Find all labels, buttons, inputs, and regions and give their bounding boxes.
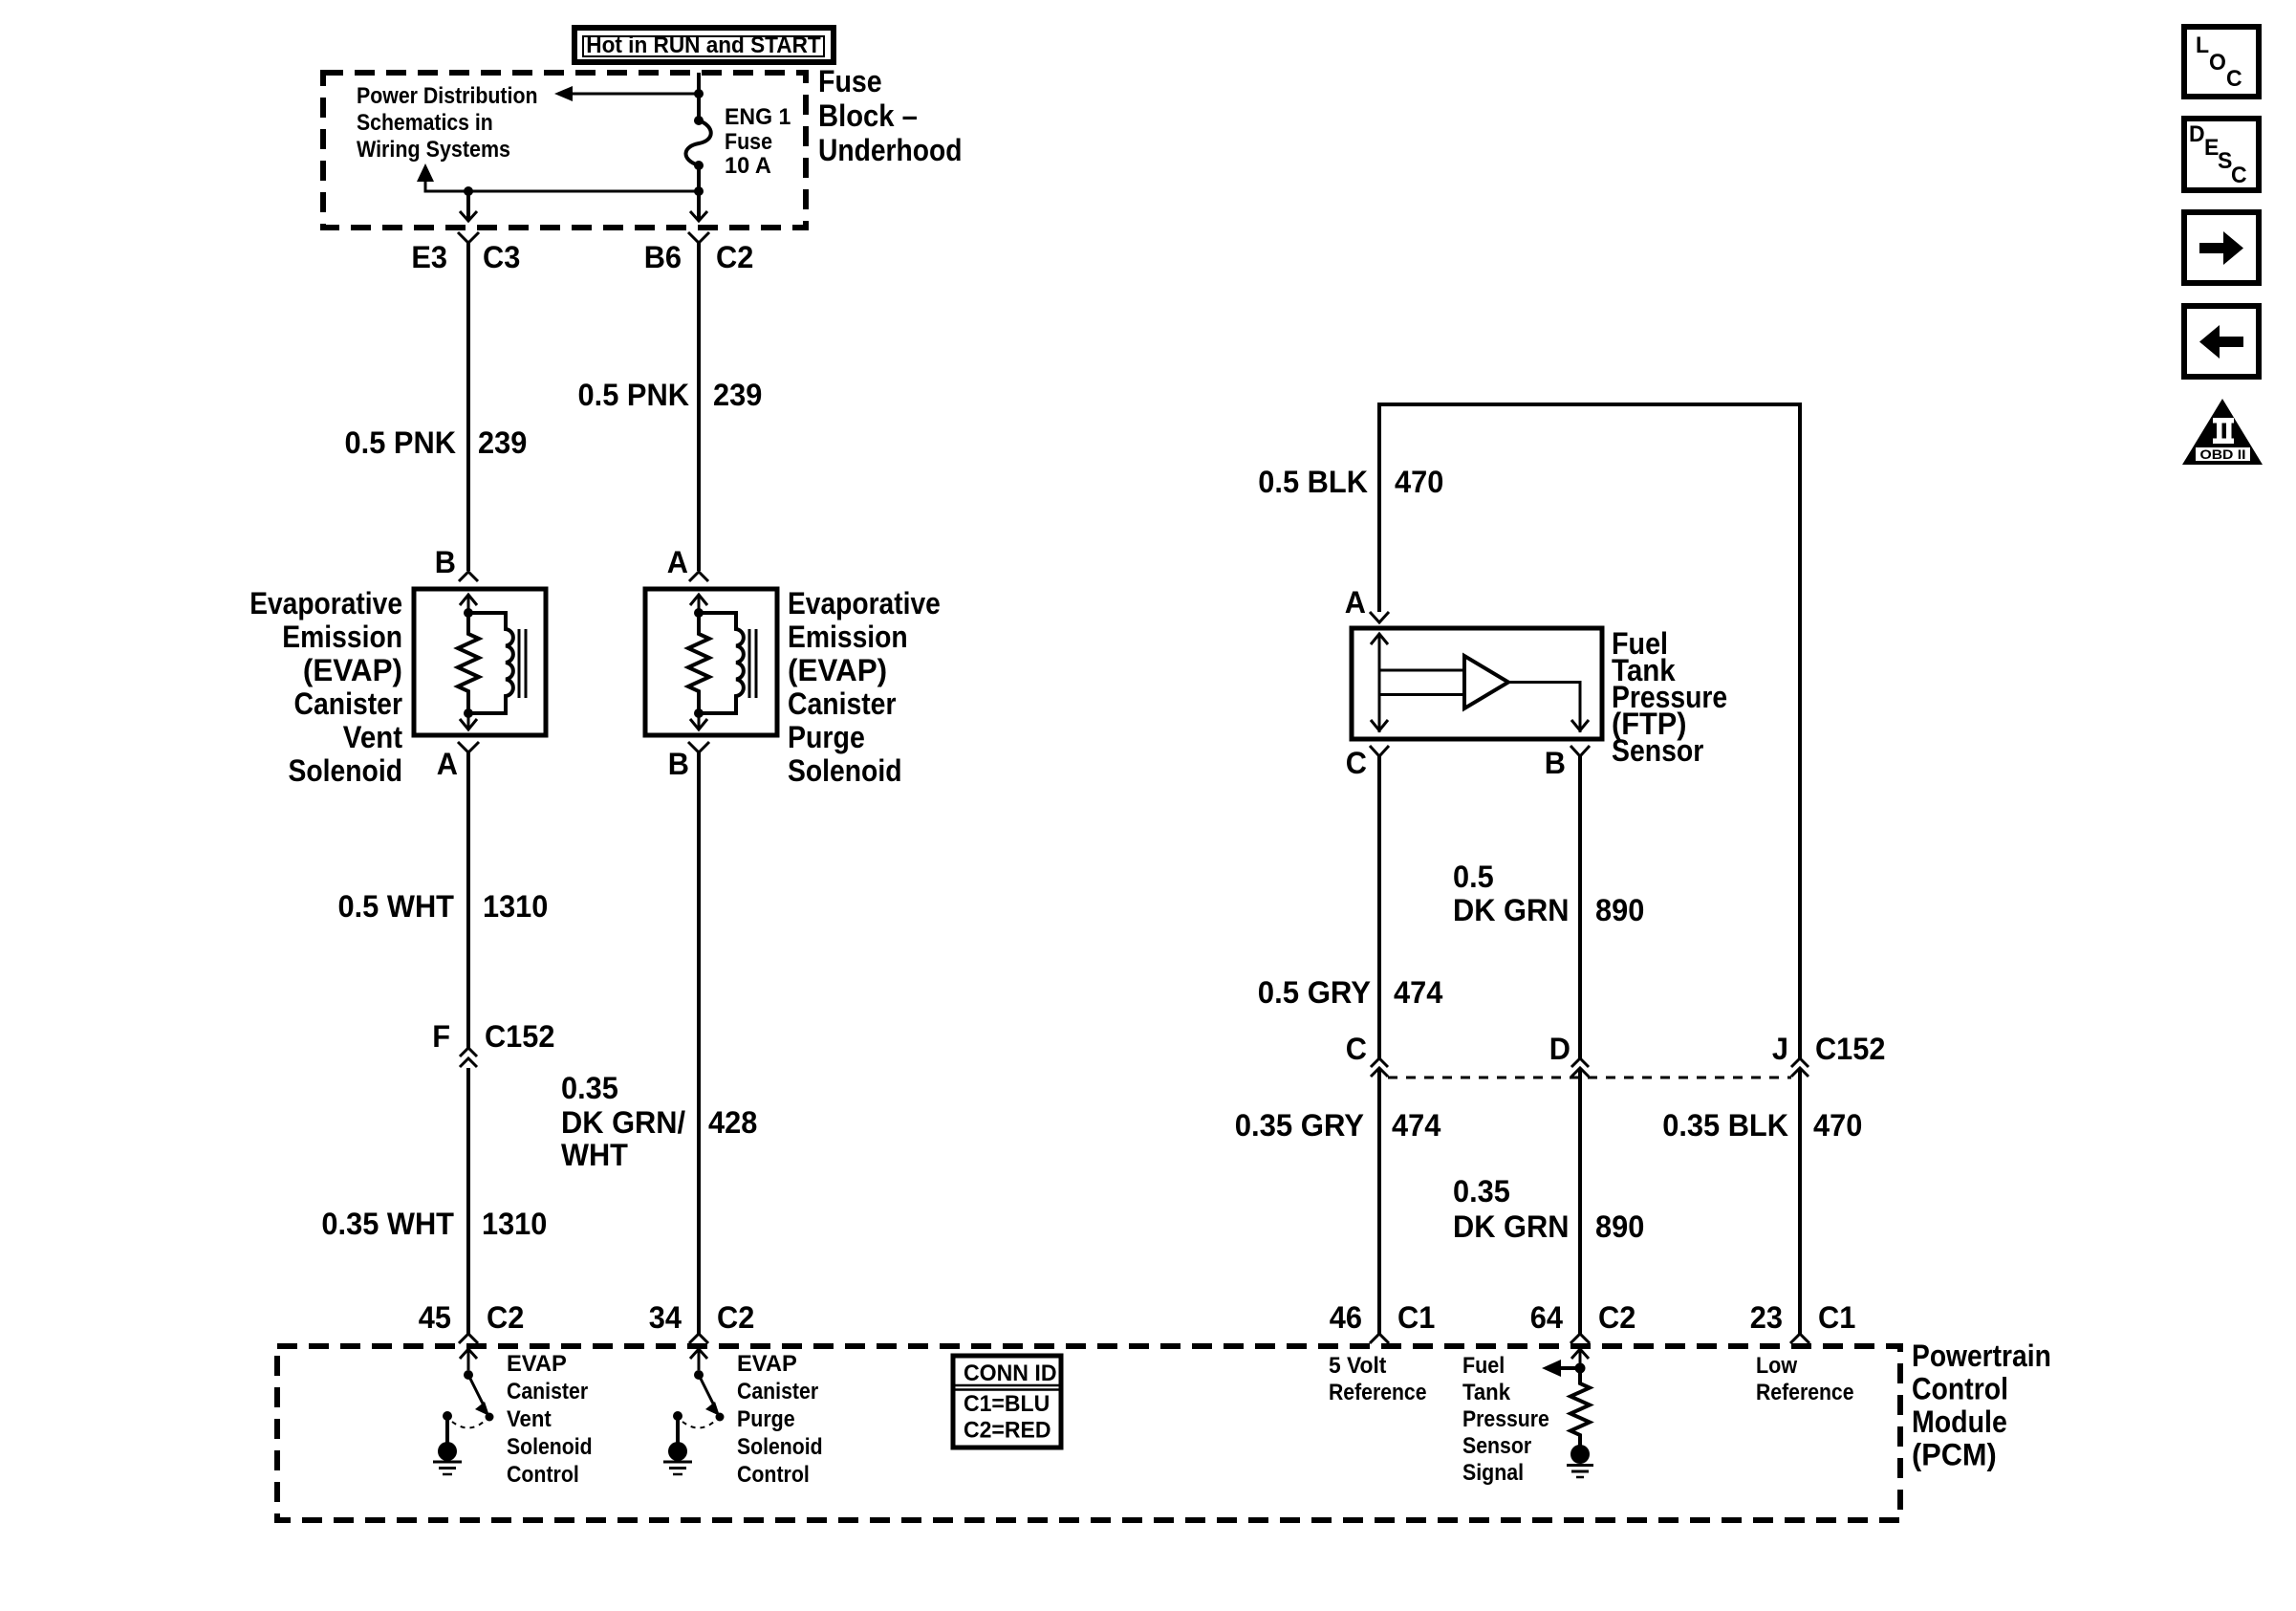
- svg-text:C3: C3: [483, 240, 520, 274]
- connector pin A of purge solenoid: [689, 572, 708, 581]
- svg-text:O: O: [2209, 50, 2226, 76]
- svg-text:C2: C2: [716, 240, 753, 274]
- svg-text:Fuel: Fuel: [1462, 1353, 1505, 1379]
- svg-text:Evaporative: Evaporative: [788, 586, 941, 620]
- svg-text:Power Distribution: Power Distribution: [357, 83, 538, 109]
- svg-text:Vent: Vent: [507, 1406, 552, 1432]
- ground post: [673, 1411, 682, 1421]
- connector B6 C2: [688, 232, 709, 243]
- svg-text:64: 64: [1530, 1300, 1563, 1335]
- powertrain control module dashed box: [277, 1346, 1900, 1520]
- icon: LOC button: [2184, 27, 2259, 97]
- svg-text:Reference: Reference: [1329, 1380, 1427, 1405]
- connector pin B of FTP sensor: [1570, 746, 1590, 756]
- svg-text:C152: C152: [485, 1019, 554, 1054]
- svg-text:Block –: Block –: [818, 98, 918, 133]
- CONN ID table: [953, 1356, 1061, 1448]
- resistor winding: [688, 613, 709, 713]
- svg-text:EVAP: EVAP: [737, 1351, 797, 1377]
- wire: entry arrow: [460, 595, 477, 605]
- svg-text:DK GRN: DK GRN: [1453, 893, 1570, 927]
- svg-text:428: 428: [708, 1105, 757, 1140]
- wire: left drop to E3: [466, 191, 470, 221]
- node: [694, 708, 704, 718]
- svg-text:OBD II: OBD II: [2200, 446, 2246, 462]
- svg-text:Schematics in: Schematics in: [357, 110, 493, 136]
- svg-text:Control: Control: [507, 1462, 579, 1488]
- wire: stubs to amplifier: [1379, 669, 1464, 672]
- svg-text:1310: 1310: [483, 889, 548, 924]
- svg-text:D: D: [1549, 1032, 1570, 1066]
- wire: dashed connector line C152: [1388, 1077, 1791, 1079]
- power label box: Hot in RUN and START: [574, 28, 834, 62]
- svg-text:C1: C1: [1397, 1300, 1435, 1335]
- svg-text:C: C: [2226, 66, 2242, 92]
- svg-text:474: 474: [1394, 975, 1442, 1010]
- svg-text:239: 239: [713, 378, 762, 412]
- switch: solenoid control driver: [663, 1349, 725, 1474]
- ground: [433, 1461, 462, 1464]
- svg-text:D: D: [2189, 121, 2205, 147]
- solenoid internals: [458, 595, 526, 729]
- wire: 0.5 GRY 474 FTP C down to C152 C: [1377, 756, 1381, 1058]
- icon: back arrow button: [2184, 306, 2259, 377]
- svg-text:Underhood: Underhood: [818, 133, 963, 167]
- fuse ENG 1 10 A: [685, 116, 710, 170]
- svg-text:C2: C2: [1598, 1300, 1635, 1335]
- svg-text:C2: C2: [717, 1300, 754, 1335]
- svg-text:Hot in RUN and START: Hot in RUN and START: [586, 33, 821, 58]
- svg-text:0.5 WHT: 0.5 WHT: [338, 889, 455, 924]
- ground: [1567, 1464, 1593, 1467]
- dashed throw arc: [452, 1422, 484, 1428]
- icon: forward arrow button: [2184, 212, 2259, 283]
- svg-text:474: 474: [1392, 1108, 1440, 1143]
- wire: arrow to power distribution schematics: [570, 93, 699, 96]
- svg-text:Pressure: Pressure: [1462, 1406, 1549, 1432]
- svg-text:Wiring Systems: Wiring Systems: [357, 137, 510, 163]
- svg-text:WHT: WHT: [561, 1138, 628, 1172]
- svg-text:0.5 PNK: 0.5 PNK: [578, 378, 690, 412]
- svg-text:Control: Control: [737, 1462, 810, 1488]
- wire: 0.35 BLK to PCM 23: [1798, 1069, 1802, 1335]
- svg-text:Low: Low: [1756, 1353, 1797, 1379]
- EVAP canister vent solenoid box: [414, 589, 546, 735]
- svg-text:Canister: Canister: [737, 1379, 818, 1404]
- svg-text:(PCM): (PCM): [1912, 1438, 1997, 1472]
- svg-text:0.5 GRY: 0.5 GRY: [1258, 975, 1371, 1010]
- svg-text:DK GRN: DK GRN: [1453, 1209, 1570, 1244]
- svg-text:Canister: Canister: [294, 686, 403, 721]
- svg-text:B: B: [435, 545, 456, 579]
- icon: DESC button: [2184, 119, 2259, 190]
- svg-text:Solenoid: Solenoid: [289, 753, 403, 788]
- svg-text:C: C: [1346, 1032, 1367, 1066]
- arrow: B6 exit: [690, 211, 707, 221]
- fuse block underhood dashed box: [323, 73, 806, 228]
- ground post: [443, 1411, 452, 1421]
- node: [464, 708, 473, 718]
- svg-text:L: L: [2196, 33, 2209, 58]
- svg-text:E3: E3: [411, 240, 447, 274]
- wire: 0.5 PNK 239 E3 to vent solenoid B: [466, 243, 470, 571]
- svg-text:239: 239: [478, 425, 527, 460]
- svg-text:0.35: 0.35: [561, 1071, 618, 1105]
- wire: 0.35 WHT 1310 to PCM 45: [466, 1068, 470, 1335]
- svg-text:Canister: Canister: [788, 686, 897, 721]
- dashed throw arc: [682, 1422, 714, 1428]
- svg-text:34: 34: [649, 1300, 682, 1335]
- node: bus junction left: [464, 186, 473, 196]
- core lines: [748, 629, 751, 698]
- connector pin A of FTP sensor: [1370, 612, 1389, 622]
- svg-text:Emission: Emission: [788, 620, 908, 654]
- svg-text:470: 470: [1813, 1108, 1862, 1143]
- svg-text:5 Volt: 5 Volt: [1329, 1353, 1386, 1379]
- icon: OBD II triangle: [2182, 399, 2263, 465]
- svg-text:Powertrain: Powertrain: [1912, 1339, 2051, 1373]
- connector F C152 in-line: [460, 1048, 477, 1056]
- svg-text:CONN ID: CONN ID: [964, 1361, 1057, 1386]
- svg-text:C152: C152: [1815, 1032, 1885, 1066]
- wire: entry arrow: [690, 595, 707, 605]
- svg-text:Solenoid: Solenoid: [737, 1434, 823, 1460]
- arrow: E3 exit: [460, 211, 477, 221]
- svg-text:A: A: [667, 545, 688, 579]
- svg-text:0.35 GRY: 0.35 GRY: [1235, 1108, 1364, 1143]
- core lines: [518, 629, 521, 698]
- svg-text:Signal: Signal: [1462, 1460, 1524, 1486]
- svg-text:C1=BLU: C1=BLU: [964, 1391, 1050, 1417]
- FTP sensor internals: [1371, 634, 1589, 732]
- svg-text:Reference: Reference: [1756, 1380, 1854, 1405]
- svg-text:Fuse: Fuse: [725, 129, 772, 155]
- svg-text:23: 23: [1750, 1300, 1783, 1335]
- svg-text:ENG 1: ENG 1: [725, 104, 791, 130]
- wire: fuse output down to bus: [697, 165, 701, 221]
- svg-text:B: B: [1545, 746, 1566, 780]
- svg-text:C2=RED: C2=RED: [964, 1418, 1051, 1444]
- svg-text:C2: C2: [487, 1300, 524, 1335]
- svg-text:B: B: [668, 747, 689, 781]
- svg-text:46: 46: [1330, 1300, 1362, 1335]
- svg-text:Canister: Canister: [507, 1379, 588, 1404]
- wire: 0.5 DK GRN 890 FTP B down to C152 D: [1578, 756, 1582, 1058]
- connector pin A below vent solenoid: [458, 742, 479, 752]
- svg-text:0.35 BLK: 0.35 BLK: [1662, 1108, 1788, 1143]
- svg-text:C: C: [2231, 163, 2247, 188]
- svg-text:0.35 WHT: 0.35 WHT: [321, 1207, 454, 1241]
- svg-text:0.35: 0.35: [1453, 1174, 1510, 1208]
- svg-text:0.5 PNK: 0.5 PNK: [345, 425, 457, 460]
- node: [694, 1370, 704, 1380]
- switch: solenoid control driver: [433, 1349, 494, 1474]
- svg-text:470: 470: [1395, 465, 1443, 499]
- wire: 0.35 DK GRN to PCM 64: [1578, 1069, 1582, 1335]
- svg-text:Sensor: Sensor: [1462, 1433, 1531, 1459]
- svg-text:C: C: [1346, 746, 1367, 780]
- svg-text:Evaporative: Evaporative: [249, 586, 402, 620]
- svg-text:890: 890: [1595, 1209, 1644, 1244]
- ground: [663, 1461, 692, 1464]
- node: [464, 608, 473, 618]
- svg-text:Sensor: Sensor: [1612, 733, 1703, 768]
- solenoid internals: [688, 595, 756, 729]
- node: [1575, 1363, 1586, 1374]
- arrow: signal tap: [1560, 1366, 1580, 1370]
- svg-text:C1: C1: [1818, 1300, 1855, 1335]
- node: [464, 1370, 473, 1380]
- svg-text:(EVAP): (EVAP): [788, 653, 887, 687]
- coil: [699, 613, 744, 713]
- node: junction to power distribution arrow: [694, 89, 704, 98]
- svg-text:B6: B6: [644, 240, 682, 274]
- connector E3 C3: [458, 232, 479, 243]
- resistor R1: [1570, 1368, 1590, 1447]
- wire: exit arrow: [467, 713, 470, 729]
- wire: 0.5 PNK 239 B6 to purge solenoid A: [697, 243, 701, 571]
- svg-text:Module: Module: [1912, 1404, 2007, 1439]
- svg-text:A: A: [1345, 585, 1366, 620]
- wire: 0.35 DK GRN/WHT 428 purge B down to PCM 34: [697, 752, 701, 1335]
- svg-text:45: 45: [419, 1300, 451, 1335]
- connector pin B below purge solenoid: [688, 742, 709, 752]
- switch arm: [699, 1375, 713, 1404]
- connector pin B of vent solenoid: [459, 572, 478, 581]
- svg-text:EVAP: EVAP: [507, 1351, 567, 1377]
- svg-text:Vent: Vent: [343, 720, 403, 754]
- svg-text:Solenoid: Solenoid: [507, 1434, 593, 1460]
- svg-text:Control: Control: [1912, 1372, 2008, 1406]
- pull network at PCM pin 64: [1542, 1349, 1593, 1477]
- svg-text:J: J: [1772, 1032, 1788, 1066]
- svg-text:(EVAP): (EVAP): [303, 653, 402, 687]
- wire: 0.35 GRY to PCM 46: [1377, 1069, 1381, 1335]
- node: [694, 608, 704, 618]
- svg-text:Emission: Emission: [282, 620, 402, 654]
- svg-text:0.5 BLK: 0.5 BLK: [1258, 465, 1368, 499]
- wire: output to B: [1508, 683, 1580, 733]
- svg-text:10 A: 10 A: [725, 153, 771, 179]
- wire: exit arrow: [698, 713, 701, 729]
- wire: 0.5 BLK 470 FTP A up across down to PCM 23: [1379, 404, 1800, 1058]
- connector pins at PCM: [459, 1334, 478, 1343]
- coil: [468, 613, 513, 713]
- EVAP canister purge solenoid box: [645, 589, 777, 735]
- resistor winding: [458, 613, 479, 713]
- svg-text:0.5: 0.5: [1453, 860, 1494, 894]
- svg-text:Purge: Purge: [737, 1406, 795, 1432]
- wire: vertical A to C inside: [1378, 634, 1381, 732]
- svg-text:DK GRN/: DK GRN/: [561, 1105, 685, 1140]
- wire: 0.5 WHT 1310 vent A down to C152 F: [466, 752, 470, 1048]
- node: bus junction right: [694, 186, 704, 196]
- wire: bus to left with up arrow: [425, 181, 699, 191]
- svg-text:F: F: [432, 1019, 450, 1054]
- fuel tank pressure FTP sensor box: [1352, 628, 1602, 739]
- svg-text:890: 890: [1595, 893, 1644, 927]
- op-amp U1: [1464, 656, 1508, 708]
- svg-text:Tank: Tank: [1462, 1380, 1511, 1405]
- svg-text:Solenoid: Solenoid: [788, 753, 902, 788]
- wire: hot feed down from label box: [697, 73, 701, 120]
- svg-text:A: A: [437, 747, 458, 781]
- connector pin C of FTP sensor: [1370, 746, 1389, 756]
- ground node: [1570, 1445, 1590, 1464]
- switch arm: [468, 1375, 483, 1404]
- svg-text:1310: 1310: [482, 1207, 547, 1241]
- svg-text:Purge: Purge: [788, 720, 865, 754]
- svg-text:Fuse: Fuse: [818, 64, 882, 98]
